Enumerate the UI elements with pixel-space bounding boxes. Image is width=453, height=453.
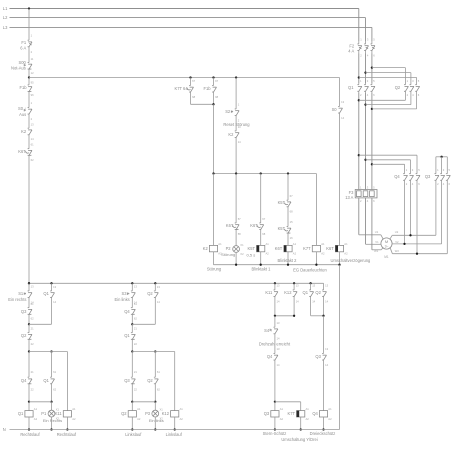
svg-text:X1: X1 bbox=[240, 243, 244, 247]
svg-text:21: 21 bbox=[31, 326, 34, 330]
svg-text:21: 21 bbox=[134, 370, 137, 374]
svg-text:3~: 3~ bbox=[385, 245, 389, 249]
svg-text:68: 68 bbox=[290, 210, 293, 214]
svg-text:14: 14 bbox=[296, 300, 299, 304]
svg-text:Q2: Q2 bbox=[121, 411, 127, 416]
svg-text:Aus: Aus bbox=[19, 112, 26, 117]
svg-text:S4 ↑: S4 ↑ bbox=[264, 328, 272, 333]
svg-text:A1: A1 bbox=[218, 242, 222, 246]
svg-text:68: 68 bbox=[262, 232, 265, 236]
svg-text:S3 ↑: S3 ↑ bbox=[121, 291, 129, 296]
svg-text:16: 16 bbox=[290, 236, 293, 240]
svg-text:K6T: K6T bbox=[326, 246, 334, 251]
svg-text:15: 15 bbox=[290, 220, 293, 224]
svg-text:K11: K11 bbox=[265, 290, 273, 295]
svg-text:A1: A1 bbox=[306, 407, 310, 411]
svg-text:Q3: Q3 bbox=[21, 309, 27, 314]
svg-text:K2: K2 bbox=[21, 129, 27, 134]
svg-text:14: 14 bbox=[277, 363, 280, 367]
svg-text:Q1: Q1 bbox=[124, 333, 130, 338]
svg-text:67: 67 bbox=[262, 217, 265, 221]
svg-text:Q4: Q4 bbox=[124, 309, 130, 314]
svg-text:14: 14 bbox=[341, 116, 344, 120]
svg-text:14: 14 bbox=[312, 300, 315, 304]
svg-text:X2: X2 bbox=[240, 252, 244, 256]
svg-text:62: 62 bbox=[31, 158, 34, 162]
svg-text:P2: P2 bbox=[226, 246, 232, 251]
svg-text:A2: A2 bbox=[34, 417, 38, 421]
svg-text:58: 58 bbox=[238, 232, 241, 236]
svg-text:M: M bbox=[385, 239, 388, 244]
svg-text:Q3: Q3 bbox=[264, 411, 270, 416]
svg-text:62: 62 bbox=[53, 388, 56, 392]
svg-text:0,5 s: 0,5 s bbox=[247, 252, 256, 257]
svg-text:61: 61 bbox=[31, 302, 34, 306]
svg-text:13: 13 bbox=[277, 283, 280, 287]
svg-text:61: 61 bbox=[31, 142, 34, 146]
svg-text:Q4: Q4 bbox=[312, 411, 318, 416]
svg-text:Linkslauf: Linkslauf bbox=[125, 432, 142, 437]
svg-text:13: 13 bbox=[238, 125, 241, 129]
svg-text:A2: A2 bbox=[266, 252, 270, 256]
svg-text:Not-Aus: Not-Aus bbox=[11, 65, 26, 70]
svg-text:K2: K2 bbox=[203, 246, 209, 251]
svg-text:13: 13 bbox=[277, 347, 280, 351]
svg-text:A1: A1 bbox=[321, 242, 325, 246]
svg-text:Q1: Q1 bbox=[43, 291, 49, 296]
svg-text:K7T: K7T bbox=[287, 411, 295, 416]
svg-text:K5T: K5T bbox=[247, 246, 255, 251]
svg-text:A2: A2 bbox=[293, 252, 297, 256]
svg-text:A2: A2 bbox=[344, 252, 348, 256]
svg-text:F1b: F1b bbox=[204, 86, 212, 91]
svg-text:62: 62 bbox=[31, 317, 34, 321]
svg-text:Dreieckschütz: Dreieckschütz bbox=[310, 431, 336, 436]
svg-text:N: N bbox=[3, 427, 6, 432]
svg-text:K12: K12 bbox=[284, 290, 292, 295]
svg-text:Q3: Q3 bbox=[315, 354, 321, 359]
svg-text:Blinktakt 2: Blinktakt 2 bbox=[278, 258, 298, 263]
svg-text:13: 13 bbox=[277, 321, 280, 325]
svg-text:14: 14 bbox=[277, 300, 280, 304]
svg-text:13: 13 bbox=[31, 122, 34, 126]
svg-text:22: 22 bbox=[134, 388, 137, 392]
svg-text:13: 13 bbox=[341, 100, 344, 104]
svg-text:6 A: 6 A bbox=[20, 45, 26, 50]
svg-text:Q1: Q1 bbox=[303, 290, 309, 295]
svg-text:Q2: Q2 bbox=[147, 378, 153, 383]
svg-text:U2: U2 bbox=[395, 230, 399, 234]
svg-text:L2: L2 bbox=[3, 15, 8, 20]
svg-text:Q1: Q1 bbox=[348, 85, 354, 90]
svg-text:Q2: Q2 bbox=[395, 85, 401, 90]
svg-text:EG Dauerleuchten: EG Dauerleuchten bbox=[293, 268, 327, 273]
svg-text:13: 13 bbox=[325, 347, 328, 351]
svg-text:14: 14 bbox=[157, 300, 160, 304]
svg-text:Umschaltverzögerung: Umschaltverzögerung bbox=[331, 258, 372, 263]
svg-text:Q3: Q3 bbox=[124, 378, 130, 383]
svg-text:P1: P1 bbox=[41, 411, 47, 416]
svg-text:K5T: K5T bbox=[278, 226, 286, 231]
svg-text:Q2: Q2 bbox=[21, 333, 27, 338]
svg-text:Rechtslauf: Rechtslauf bbox=[20, 432, 40, 437]
svg-text:Q4: Q4 bbox=[267, 354, 273, 359]
svg-text:13: 13 bbox=[312, 283, 315, 287]
svg-text:22: 22 bbox=[31, 388, 34, 392]
svg-text:61: 61 bbox=[157, 370, 160, 374]
svg-text:Störung: Störung bbox=[221, 252, 235, 257]
svg-text:57: 57 bbox=[238, 217, 241, 221]
svg-text:L3: L3 bbox=[3, 25, 8, 30]
svg-text:K6T: K6T bbox=[275, 246, 283, 251]
svg-text:Umschaltung Y/Drei: Umschaltung Y/Drei bbox=[281, 437, 317, 442]
svg-text:A2: A2 bbox=[137, 417, 141, 421]
svg-text:A2: A2 bbox=[306, 417, 310, 421]
svg-text:U1: U1 bbox=[375, 230, 379, 234]
svg-text:97: 97 bbox=[215, 79, 218, 83]
svg-text:13: 13 bbox=[31, 284, 34, 288]
svg-text:K11: K11 bbox=[55, 411, 63, 416]
svg-text:Q2: Q2 bbox=[315, 290, 321, 295]
svg-text:V1: V1 bbox=[375, 240, 379, 244]
svg-text:A1: A1 bbox=[137, 407, 141, 411]
svg-text:S0 ↑: S0 ↑ bbox=[18, 106, 26, 111]
svg-text:K7T 64: K7T 64 bbox=[174, 86, 188, 91]
svg-text:13: 13 bbox=[296, 283, 299, 287]
svg-text:S0: S0 bbox=[332, 107, 338, 112]
svg-text:Stern-Schütz: Stern-Schütz bbox=[263, 431, 287, 436]
svg-text:K6T: K6T bbox=[18, 149, 26, 154]
svg-text:S2 ↑: S2 ↑ bbox=[225, 109, 233, 114]
svg-text:Blinktakt 1: Blinktakt 1 bbox=[252, 267, 272, 272]
svg-text:61: 61 bbox=[53, 370, 56, 374]
svg-text:98: 98 bbox=[215, 95, 218, 99]
svg-text:22: 22 bbox=[134, 342, 137, 346]
svg-text:A2: A2 bbox=[180, 417, 184, 421]
svg-text:W2: W2 bbox=[395, 249, 400, 253]
svg-text:A1: A1 bbox=[266, 242, 270, 246]
svg-text:Q1: Q1 bbox=[43, 378, 49, 383]
svg-text:14: 14 bbox=[325, 300, 328, 304]
svg-text:14: 14 bbox=[277, 337, 280, 341]
svg-text:Störung: Störung bbox=[207, 267, 222, 272]
svg-text:14: 14 bbox=[53, 300, 56, 304]
svg-text:A2: A2 bbox=[280, 417, 284, 421]
svg-text:A1: A1 bbox=[344, 242, 348, 246]
svg-text:61: 61 bbox=[134, 302, 137, 306]
svg-text:12: 12 bbox=[31, 71, 34, 75]
svg-text:L1: L1 bbox=[3, 6, 8, 11]
svg-text:21: 21 bbox=[31, 370, 34, 374]
svg-text:A1: A1 bbox=[72, 407, 76, 411]
svg-text:14: 14 bbox=[325, 363, 328, 367]
svg-text:62: 62 bbox=[157, 388, 160, 392]
svg-text:13 A: 13 A bbox=[345, 195, 353, 200]
svg-text:Ein Rechts: Ein Rechts bbox=[43, 418, 62, 423]
svg-text:96: 96 bbox=[31, 93, 34, 97]
svg-text:A1: A1 bbox=[34, 407, 38, 411]
svg-text:11: 11 bbox=[31, 57, 34, 61]
svg-text:K12: K12 bbox=[162, 411, 170, 416]
svg-text:13: 13 bbox=[53, 285, 56, 289]
svg-text:22: 22 bbox=[31, 342, 34, 346]
svg-text:W1: W1 bbox=[374, 249, 379, 253]
svg-text:21: 21 bbox=[134, 326, 137, 330]
svg-text:62: 62 bbox=[134, 317, 137, 321]
svg-text:68: 68 bbox=[192, 95, 195, 99]
svg-text:A2: A2 bbox=[72, 417, 76, 421]
svg-text:A1: A1 bbox=[328, 407, 332, 411]
svg-text:K6T: K6T bbox=[250, 223, 258, 228]
svg-text:4 A: 4 A bbox=[348, 49, 354, 54]
svg-text:Q3: Q3 bbox=[425, 174, 431, 179]
svg-text:A1: A1 bbox=[293, 242, 297, 246]
svg-text:Q4: Q4 bbox=[394, 174, 400, 179]
svg-text:13: 13 bbox=[157, 285, 160, 289]
svg-text:Rechtslauf: Rechtslauf bbox=[57, 432, 77, 437]
svg-text:P3: P3 bbox=[145, 411, 151, 416]
svg-text:F1b: F1b bbox=[20, 85, 28, 90]
svg-text:K7T: K7T bbox=[303, 246, 311, 251]
svg-text:Q1: Q1 bbox=[18, 411, 24, 416]
svg-text:Linkslauf: Linkslauf bbox=[166, 432, 183, 437]
svg-text:A2: A2 bbox=[321, 252, 325, 256]
svg-text:67: 67 bbox=[192, 79, 195, 83]
svg-text:13: 13 bbox=[325, 283, 328, 287]
svg-text:M1: M1 bbox=[384, 255, 389, 259]
svg-text:Q2: Q2 bbox=[147, 291, 153, 296]
svg-text:A2: A2 bbox=[328, 417, 332, 421]
svg-text:Ein rechts: Ein rechts bbox=[8, 297, 26, 302]
svg-text:14: 14 bbox=[238, 140, 241, 144]
svg-text:67: 67 bbox=[290, 194, 293, 198]
svg-text:95: 95 bbox=[31, 80, 34, 84]
svg-text:Ein links: Ein links bbox=[114, 297, 129, 302]
svg-text:K6T: K6T bbox=[226, 223, 234, 228]
svg-text:Q4: Q4 bbox=[21, 378, 27, 383]
svg-text:14: 14 bbox=[31, 137, 34, 141]
svg-text:K2: K2 bbox=[228, 132, 234, 137]
svg-text:13: 13 bbox=[134, 284, 137, 288]
svg-text:Ein links: Ein links bbox=[149, 418, 164, 423]
svg-text:K5T: K5T bbox=[278, 200, 286, 205]
svg-text:S1 ↑: S1 ↑ bbox=[18, 291, 26, 296]
svg-text:A1: A1 bbox=[280, 407, 284, 411]
svg-text:V2: V2 bbox=[395, 240, 399, 244]
svg-text:A1: A1 bbox=[180, 407, 184, 411]
